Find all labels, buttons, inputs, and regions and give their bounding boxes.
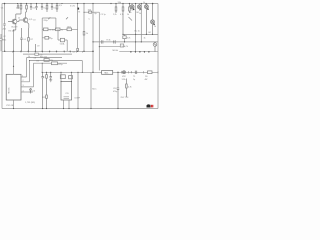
svg-text:Y 1k: Y 1k [122,46,126,48]
wire top supply rail [2,3,158,5]
wire mid rail right [119,51,158,53]
ground G1 [49,80,52,82]
svg-text:T3: T3 [78,12,80,14]
wire T1 collector [15,18,17,21]
resistor R21 [46,73,48,109]
wire IC pin3 [21,63,34,87]
wire IC pin1 [21,58,62,77]
wire diag right [129,17,133,21]
svg-text:100: 100 [39,55,42,57]
wire x77.6 drop [77,4,79,52]
logo mark red [151,105,152,108]
capacitor C6 top [51,4,53,11]
svg-text:3: 3 [23,85,24,87]
svg-text:4,7k: 4,7k [29,19,33,21]
capacitor C5 top [41,4,43,11]
svg-text:470µ: 470µ [113,91,118,93]
svg-text:C: C [89,19,91,21]
svg-text:1: 1 [22,75,23,77]
svg-text:470µ: 470µ [58,64,63,66]
svg-text:R3 10k: R3 10k [9,31,15,33]
wire y46.7 line [99,47,120,71]
svg-text:C5 1µ: C5 1µ [101,14,107,16]
svg-text:0,5: 0,5 [59,5,63,7]
transistor T7 [130,5,134,9]
IC U1 [6,74,21,100]
wire bottom ground rail [2,108,158,110]
capacitor C4 [20,28,22,51]
resistor R24 [69,76,73,79]
speaker box [61,82,72,101]
resistor R14 [89,11,92,13]
wire y34.4 line [123,33,159,35]
svg-text:C2: C2 [3,36,5,38]
resistor R17 [129,7,131,11]
svg-text:4,7k: 4,7k [128,87,132,89]
capacitor C10 [41,73,43,109]
svg-text:501A: 501A [60,43,65,46]
wire IC pin2 [21,61,82,82]
logo mark black [147,104,151,107]
capacitor C15 [102,40,116,43]
svg-text:R9: R9 [37,61,39,63]
transistor T9 [144,5,148,9]
svg-text:1k: 1k [86,33,88,35]
diode D1 [30,88,32,94]
wire y41.9 line [93,41,158,43]
svg-text:8Ω C: 8Ω C [92,88,97,90]
rail tick marks [13,51,149,53]
svg-text:2Ω: 2Ω [145,76,148,78]
resistor R16 [122,7,124,11]
svg-text:4W: 4W [145,79,148,81]
svg-text:T6: T6 [61,30,63,32]
resistor R19 [123,36,126,39]
svg-text:12k: 12k [50,60,53,62]
node mic stem [0,34,2,51]
resistor R23 [60,75,65,79]
transistor T4 arrow [66,17,68,19]
resistor R20 [44,59,49,62]
svg-text:T5 103: T5 103 [49,30,55,32]
wire T2 collector [26,12,27,18]
resistor R22 [46,95,48,98]
wire x84 drop [83,4,85,52]
svg-text:D6: D6 [33,91,35,93]
svg-text:C4: C4 [23,39,25,41]
capacitor CA2 [45,36,49,39]
resistor R20b [52,62,58,65]
capacitor CB2 [60,38,64,42]
svg-text:C18: C18 [113,88,116,90]
svg-text:T5: T5 [133,76,135,78]
connector MIC [0,38,2,41]
svg-text:1612: 1612 [67,26,71,28]
pot VR2 [123,71,126,74]
resistor R7 [28,30,30,51]
svg-text:BC 1k: BC 1k [135,31,140,33]
svg-text:R22: R22 [42,97,45,99]
resistor R19b [120,44,123,47]
wire left border [1,4,3,109]
svg-text:1k: 1k [28,56,30,58]
wire feedback box [34,63,68,72]
resistor R8 top [46,5,48,9]
capacitor C11 [50,73,52,80]
transistor T10 [151,20,155,24]
resistor R27 [35,53,39,55]
wire x35 stub [34,44,36,51]
svg-text:1k: 1k [18,18,20,20]
wire out box top right [71,73,73,82]
svg-text:COMP: COMP [74,97,80,99]
box LS [148,71,153,74]
svg-text:250: 250 [16,8,20,10]
svg-text:TA7205: TA7205 [8,88,11,94]
diode D2 [154,42,157,52]
wire comp drop [77,73,79,109]
transistor T3 arrow [48,17,50,19]
capacitor C1b [17,4,19,10]
svg-text:BC: BC [149,32,152,34]
svg-text:1k: 1k [154,26,156,28]
svg-text:25µ: 25µ [49,38,53,40]
wire preamp bus [42,17,56,19]
wire out box bottom pins [64,100,70,109]
transistor T8 [137,5,141,9]
transistor T2 [23,18,28,23]
wire IC bottom pin [13,100,15,109]
svg-text:0µ: 0µ [95,13,98,15]
svg-text:2,2k: 2,2k [113,14,117,16]
svg-text:C15: C15 [65,93,68,95]
capacitor C2 top [30,4,32,11]
wire mid rail left [2,50,93,52]
wire signal line [42,71,158,73]
svg-text:MIC: MIC [3,40,7,42]
capacitor C1 [3,24,5,25]
wire x67 drop [66,40,68,51]
svg-text:4,7k: 4,7k [127,38,131,40]
svg-text:4,7k: 4,7k [120,14,124,16]
wire x93 drop [92,4,94,73]
svg-text:R7: R7 [31,39,33,41]
transistor T1 [12,19,17,24]
wire signal ticks [129,71,159,73]
svg-text:170k: 170k [122,79,126,81]
svg-text:VR2: VR2 [122,76,126,78]
svg-text:R 4k: R 4k [107,40,111,42]
resistor R10 [44,28,49,31]
svg-text:C3: C3 [33,20,35,22]
junction dots [4,3,154,109]
resistor R26 [77,48,79,51]
trimmer C7 label blob [77,8,79,10]
svg-text:1µ: 1µ [133,79,136,81]
svg-text:LTK5 1B: LTK5 1B [6,105,14,107]
svg-text:C9: C9 [37,46,39,48]
wire bridge y12 [84,12,99,47]
resistor R25 [125,79,127,98]
wire IC top pin [13,30,15,74]
svg-text:1k: 1k [143,2,145,4]
svg-text:C8: C8 [34,57,36,59]
capacitor C3 top [35,4,37,11]
wire preamp row [42,28,77,30]
wire x141.3 drop [140,4,142,42]
svg-text:1k: 1k [130,12,132,14]
svg-text:0,5: 0,5 [73,51,76,53]
svg-text:TA61: TA61 [104,72,108,75]
capacitor C18 [117,72,119,108]
svg-text:MΩ 4k: MΩ 4k [113,50,119,52]
resistor R9 top [56,5,58,9]
svg-text:2: 2 [23,80,24,82]
capacitor C16 [131,71,136,74]
svg-text:2SC TC4: 2SC TC4 [121,97,129,99]
svg-text:1k: 1k [139,13,141,15]
resistor R11 [56,28,61,31]
wire T1 emitter [14,24,16,30]
svg-text:5÷25: 5÷25 [70,5,76,8]
svg-text:4: 4 [23,90,24,92]
wire right border [157,4,159,109]
wire x42 drop [41,18,43,51]
wire secondary line [23,53,72,55]
wire IC pin4 [21,91,33,93]
box U2 [102,71,113,75]
svg-text:R16 12k: R16 12k [40,56,47,58]
wire x135.6 drop [135,4,137,52]
resistor R15 [115,7,117,11]
wire input C1 drop [4,4,6,52]
resistor R5 top [26,5,28,9]
resistor R4 top [20,5,22,9]
svg-text:R: R [43,77,45,79]
wire x91 drop [90,72,92,108]
wire out box top left [60,73,62,82]
svg-text:220µ: 220µ [44,20,49,22]
wire x55.9 drop [55,18,57,29]
svg-text:1,7W (8Ω): 1,7W (8Ω) [25,102,35,104]
resistor R12 [67,28,72,31]
resistor R13 [83,32,85,36]
svg-text:2k2: 2k2 [3,29,7,31]
svg-text:BC109: BC109 [12,27,18,29]
svg-text:C1: C1 [1,8,4,10]
wire T2 base link [17,20,20,22]
svg-text:1k: 1k [144,38,146,40]
wire T2 emitter [27,22,29,30]
